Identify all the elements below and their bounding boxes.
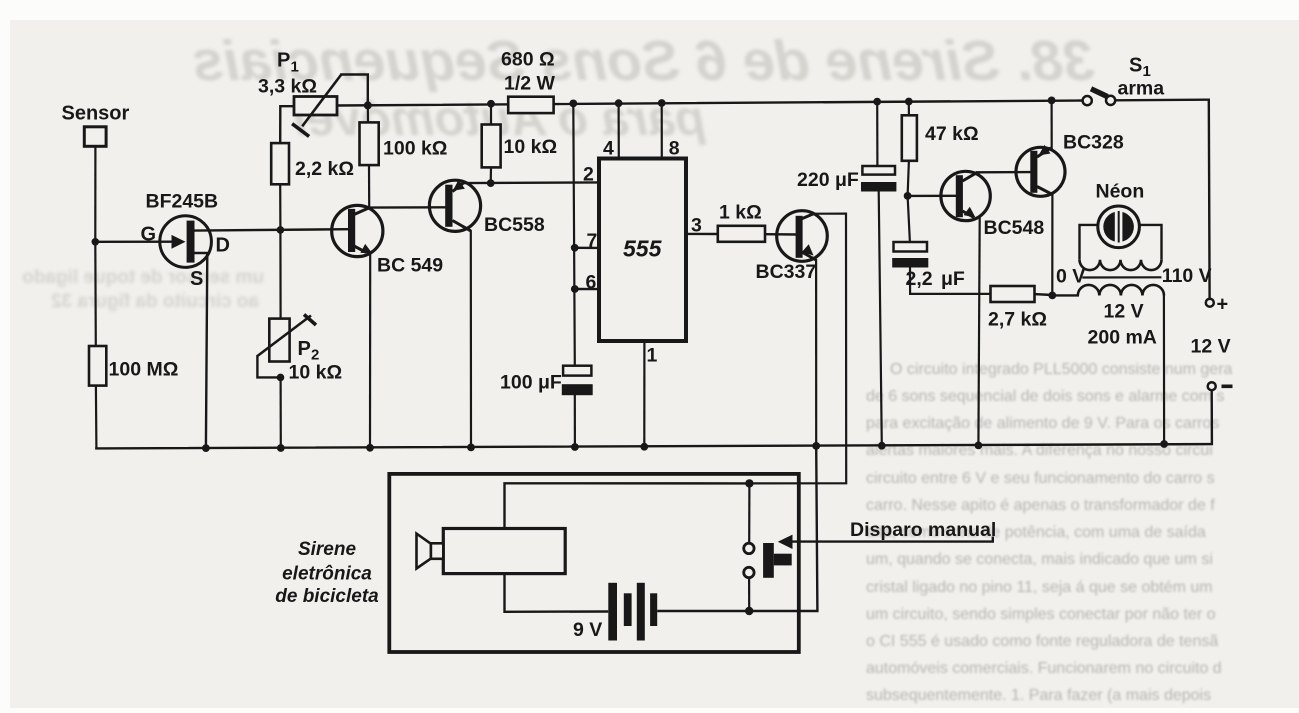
wire BC549 collector to BC558 base [369, 206, 445, 209]
svg-text:BC 549: BC 549 [377, 255, 443, 277]
capacitor C3 2,2uF [892, 242, 965, 290]
node pin4 rail junction [615, 99, 623, 107]
wire 1k to BC337 base [765, 233, 796, 236]
wire siren feed from junction B [505, 483, 750, 528]
svg-text:BC548: BC548 [984, 217, 1045, 239]
wire gate node to 100M [94, 242, 97, 346]
wire junction B to button top contact [748, 483, 750, 543]
svg-text:Sensor: Sensor [62, 103, 130, 125]
svg-text:circuito entre 6 V e seu funci: circuito entre 6 V e seu funcionamento d… [866, 470, 1215, 487]
wire secondary right to ground [1163, 295, 1165, 444]
wire 47k to BC548 base node [908, 161, 909, 196]
svg-text:para excitação de alimento de: para excitação de alimento de 9 V. Para … [866, 415, 1219, 432]
wire BC548 collector to BC328 base [977, 171, 1030, 174]
node pin8 rail junction [658, 99, 666, 107]
wire 2,2uF to 2,7k [910, 268, 991, 294]
wire P1 wiper to node A [341, 75, 368, 106]
wire ground bottom rail [96, 390, 1212, 448]
wire rail to pins 7 6 and 100uF [573, 103, 575, 365]
svg-text:um circuito, sendo simples con: um circuito, sendo simples conectar por … [866, 606, 1216, 623]
wire 0V node [1035, 294, 1078, 295]
svg-text:ao circuito da figura 32: ao circuito da figura 32 [51, 291, 259, 312]
sensor plate [62, 103, 130, 147]
wire BC337 collector to junction B [749, 214, 846, 484]
svg-text:um sensor de toque ligado: um sensor de toque ligado [22, 267, 264, 288]
wire +V top rail [337, 100, 1210, 299]
node plus terminal [1191, 294, 1231, 358]
resistor 100M [89, 346, 178, 386]
svg-text:12 V: 12 V [1104, 301, 1144, 323]
node 220uF rail junction [873, 98, 881, 106]
node BC548 base junction [904, 192, 912, 200]
pushbutton disparo manual [744, 543, 792, 578]
svg-text:7: 7 [587, 230, 598, 252]
svg-text:1: 1 [291, 59, 299, 76]
transistor Q3 BC558 [429, 180, 544, 236]
wire node A to 100k [367, 105, 369, 122]
node drain junction [277, 226, 285, 234]
svg-text:110 V: 110 V [1162, 265, 1212, 287]
svg-text:um, quando se conecta, mais in: um, quando se conecta, mais indicado que… [866, 551, 1213, 568]
node 47k rail junction [905, 98, 913, 106]
transistor Q4 BC337 [756, 211, 828, 283]
svg-text:eletrônica: eletrônica [282, 564, 372, 585]
svg-text:100 μF: 100 μF [500, 372, 562, 394]
node battery button junction [745, 607, 753, 615]
node A junction dot [364, 101, 372, 109]
svg-text:arma: arma [1118, 78, 1165, 100]
svg-text:3: 3 [691, 215, 702, 237]
wire button bottom contact to battery line [748, 578, 750, 611]
node BC558 collector ground junction [467, 444, 475, 452]
svg-text:BC337: BC337 [756, 261, 817, 283]
svg-text:200 mA: 200 mA [1088, 327, 1157, 349]
capacitor C1 100uF [500, 366, 593, 396]
resistor 1k [718, 202, 765, 242]
svg-text:1 kΩ: 1 kΩ [719, 202, 762, 224]
svg-text:9 V: 9 V [573, 619, 602, 641]
svg-text:680 Ω: 680 Ω [501, 49, 555, 71]
node rail pin7 branch junction [569, 100, 577, 108]
wire pin 6 stub [575, 288, 599, 291]
svg-text:1: 1 [647, 345, 658, 367]
node junction B dot [745, 479, 753, 487]
svg-text:1/2 W: 1/2 W [504, 73, 556, 95]
wire BC328 collector to 0V node [1051, 194, 1053, 295]
wire P2 wiper link [257, 356, 280, 377]
svg-text:100 kΩ: 100 kΩ [383, 138, 447, 160]
svg-text:555: 555 [623, 236, 663, 262]
wire 47k top [908, 102, 910, 116]
siren module [443, 529, 565, 574]
svg-text:de bicicleta: de bicicleta [275, 586, 379, 607]
transistor Q1 BF245B [141, 191, 230, 291]
svg-text:100 MΩ: 100 MΩ [109, 359, 179, 381]
wire JFET drain to BC549 base [195, 229, 349, 230]
wire 10k top [490, 104, 492, 125]
potentiometer P1 3,3k [258, 50, 341, 137]
svg-text:8: 8 [669, 138, 680, 160]
wire 220uF bottom to ground [879, 191, 882, 446]
svg-text:P: P [277, 50, 290, 72]
wire sensor to gate node [94, 147, 96, 242]
svg-text:carro. Nesse apito é apenas o: carro. Nesse apito é apenas o transforma… [866, 497, 1215, 514]
node pin6 junction [571, 285, 579, 293]
neon lamp [1080, 181, 1162, 260]
resistor 10k [482, 125, 557, 168]
svg-text:38. Sirene de 6 Sons Sequencia: 38. Sirene de 6 Sons Sequenciais [192, 29, 1095, 93]
node source ground junction [202, 444, 210, 452]
svg-text:BF245B: BF245B [146, 191, 219, 213]
wire gate [95, 240, 176, 243]
svg-text:S: S [1129, 55, 1142, 77]
svg-text:G: G [141, 224, 157, 246]
svg-text:P: P [298, 338, 311, 360]
svg-text:4: 4 [603, 138, 614, 160]
svg-text:2,2: 2,2 [906, 268, 933, 290]
op-amp U1 555 timer [583, 138, 702, 367]
wire BC558 emitter to pin 2 [463, 181, 599, 184]
wire drain line to P2 [279, 230, 281, 319]
wire 10k bottom [490, 167, 492, 183]
transistor Q6 BC328 [1016, 132, 1124, 197]
wire BC337 emitter to ground [815, 260, 817, 446]
node pin7 junction [571, 244, 579, 252]
wire pin 3 to 1k [686, 233, 718, 236]
svg-text:S: S [190, 268, 203, 290]
svg-text:BC328: BC328 [1063, 132, 1124, 154]
transistor Q2 BC549 [332, 205, 444, 276]
svg-text:Néon: Néon [1096, 181, 1145, 203]
battery 9V [573, 583, 657, 641]
resistor 100k [360, 122, 448, 165]
siren unit box [275, 474, 799, 652]
node BC548 emitter ground junction [975, 442, 983, 450]
wire battery positive to button and ground [657, 446, 817, 611]
svg-text:μF: μF [941, 268, 965, 290]
svg-text:10 kΩ: 10 kΩ [289, 362, 343, 384]
svg-text:220 μF: 220 μF [797, 169, 859, 191]
node secondary ground junction [1160, 440, 1168, 448]
wire pin 8 [661, 103, 663, 159]
wire BC548 base [908, 195, 956, 197]
speaker [417, 534, 444, 569]
wire 220uF top [876, 102, 878, 166]
wire BC549 emitter to ground [369, 254, 371, 448]
resistor 2,7k [988, 286, 1047, 331]
wire BC558 collector to ground [470, 231, 472, 447]
wire BC548 emitter to ground [978, 218, 979, 445]
node pin1 ground junction [640, 443, 648, 451]
svg-text:de 6 sons sequencial de dois s: de 6 sons sequencial de dois sons e alar… [866, 388, 1224, 405]
resistor 680 half W [501, 49, 556, 114]
wire pin 4 [617, 103, 619, 158]
node BC337 emitter ground junction [812, 442, 820, 450]
svg-text:automóveis comerciais. Funcion: automóveis comerciais. Funcionarem no ci… [866, 660, 1222, 677]
resistor 47k [902, 115, 979, 161]
node 100uF ground junction [571, 443, 579, 451]
wire disparo manual pointer [778, 519, 996, 549]
wire JFET source to ground [195, 253, 208, 448]
node BC549 emitter ground junction [366, 444, 374, 452]
svg-text:6: 6 [586, 272, 597, 294]
node gate junction [92, 238, 100, 246]
wire 2,2k to drain line [279, 184, 281, 230]
node 220uF ground junction [878, 442, 886, 450]
potentiometer P2 10k [257, 315, 342, 384]
transistor Q5 BC548 [941, 171, 1044, 239]
wire pin 1 to ground [643, 341, 645, 447]
wire 2,2uF top [908, 196, 910, 242]
svg-text:Disparo manual: Disparo manual [850, 519, 996, 541]
svg-text:2,2 kΩ: 2,2 kΩ [295, 158, 354, 180]
transformer T1 [1056, 260, 1212, 349]
svg-text:3,3 kΩ: 3,3 kΩ [258, 76, 317, 98]
node 10k top junction [487, 100, 495, 108]
svg-text:subsequentemente. 1. Para faze: subsequentemente. 1. Para fazer (a mais … [866, 687, 1211, 704]
svg-text:2: 2 [583, 164, 594, 186]
resistor 2,2k [271, 143, 354, 184]
wire 100uF to ground [574, 395, 576, 447]
node P2 wiper junction [277, 374, 285, 382]
svg-text:BC558: BC558 [484, 214, 545, 236]
CIRCUIT-START [62, 49, 1233, 653]
svg-text:O circuito integrado PLL5000 c: O circuito integrado PLL5000 consiste nu… [890, 361, 1233, 378]
svg-text:D: D [216, 235, 230, 257]
svg-text:2,7 kΩ: 2,7 kΩ [988, 309, 1047, 331]
svg-text:10 kΩ: 10 kΩ [504, 136, 558, 158]
switch S1 arma [1083, 55, 1165, 106]
svg-text:o CI 555 é usado como fonte re: o CI 555 é usado como fonte reguladora d… [866, 633, 1218, 650]
wire P2 to ground [280, 377, 282, 448]
wire 100M to ground corner [95, 386, 98, 449]
node pin2 junction [487, 179, 495, 187]
svg-text:0 V: 0 V [1056, 266, 1085, 288]
svg-text:cristal ligado no pino 11, sej: cristal ligado no pino 11, seja á que se… [866, 579, 1213, 596]
wire siren module to battery negative [505, 574, 609, 612]
svg-text:Sirene: Sirene [298, 539, 357, 560]
wire BC328 emitter to rail [1050, 100, 1052, 148]
node P2 ground junction [277, 444, 285, 452]
node 0V junction [1048, 292, 1056, 300]
svg-text:12 V: 12 V [1191, 336, 1231, 358]
node BC328 emitter rail junction [1048, 97, 1056, 105]
svg-text:47 kΩ: 47 kΩ [925, 123, 979, 145]
wire pin 7 stub [575, 247, 599, 249]
wire 100k to BC549 collector [368, 165, 370, 208]
capacitor C2 220uF [797, 166, 896, 192]
wire P1 left to 2,2k [280, 106, 294, 143]
node minus terminal [1208, 382, 1233, 390]
svg-text:+: + [1217, 294, 1229, 316]
